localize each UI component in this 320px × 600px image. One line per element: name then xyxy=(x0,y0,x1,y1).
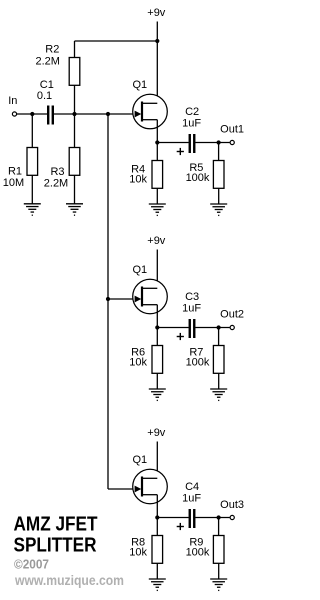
svg-text:+9v: +9v xyxy=(147,7,166,19)
svg-text:Q1: Q1 xyxy=(132,264,147,276)
wire source node to capacitor C4 xyxy=(157,517,188,519)
wire +9v to drain Q1 (stage 1) xyxy=(156,22,158,104)
svg-text:Out2: Out2 xyxy=(220,309,244,321)
resistor R6 xyxy=(156,328,158,346)
svg-text:2.2M: 2.2M xyxy=(44,178,68,190)
svg-text:In: In xyxy=(8,95,17,107)
ground under R1 xyxy=(24,203,41,205)
ground under R8 xyxy=(149,578,166,580)
svg-text:C4: C4 xyxy=(185,481,199,493)
svg-text:Out3: Out3 xyxy=(220,499,244,511)
svg-text:C3: C3 xyxy=(185,291,199,303)
wire source lead Out2 xyxy=(156,305,158,328)
junction drain rail / R2 xyxy=(155,39,159,43)
terminal Out3 xyxy=(230,515,234,519)
junction node B (C1/R2/R3) xyxy=(72,112,76,116)
svg-text:©2007: ©2007 xyxy=(14,557,49,572)
svg-text:100k: 100k xyxy=(186,172,210,184)
resistor R2 xyxy=(74,41,76,58)
capacitor C2 xyxy=(189,134,191,153)
svg-text:R3: R3 xyxy=(50,166,64,178)
wire capacitor to Out3 xyxy=(195,517,229,519)
svg-text:SPLITTER: SPLITTER xyxy=(14,535,97,557)
junction Out3 node xyxy=(217,515,221,519)
terminal Out2 xyxy=(230,325,234,329)
svg-text:10k: 10k xyxy=(129,547,147,559)
transistor Q1 (stage 2) xyxy=(133,279,168,314)
junction source node Out2 xyxy=(155,325,159,329)
svg-text:10k: 10k xyxy=(129,173,147,185)
wire gate bus stage1 to stage2 xyxy=(107,114,109,299)
terminal In xyxy=(12,112,16,116)
wire capacitor to Out2 xyxy=(195,327,229,329)
wire source node to capacitor C3 xyxy=(157,327,188,329)
capacitor C1 xyxy=(47,106,49,125)
svg-text:+9v: +9v xyxy=(147,427,166,439)
ground under R3 xyxy=(66,203,83,205)
ground under R9 xyxy=(210,578,227,580)
svg-text:10M: 10M xyxy=(3,177,24,189)
svg-text:1uF: 1uF xyxy=(182,303,201,315)
resistor R8 xyxy=(156,518,158,536)
svg-text:1uF: 1uF xyxy=(182,118,201,130)
junction node A (In/R1) xyxy=(30,112,34,116)
svg-text:1uF: 1uF xyxy=(182,493,201,505)
capacitor C4 xyxy=(189,509,191,528)
ground under R6 xyxy=(149,388,166,390)
junction gate bus tap (stage 2) xyxy=(106,297,110,301)
resistor R4 xyxy=(156,143,158,161)
wire drain rail to R2 xyxy=(75,40,158,42)
svg-text:10k: 10k xyxy=(129,357,147,369)
svg-text:Out1: Out1 xyxy=(220,124,244,136)
transistor Q1 (stage 3) xyxy=(133,469,168,504)
capacitor C3 xyxy=(189,319,191,338)
svg-text:Q1: Q1 xyxy=(132,454,147,466)
wire +9v to drain Q1 (stage 2) xyxy=(156,250,158,289)
wire source lead Out1 xyxy=(156,120,158,143)
wire In to C1 xyxy=(17,113,48,115)
svg-text:AMZ JFET: AMZ JFET xyxy=(14,514,98,536)
svg-text:100k: 100k xyxy=(186,357,210,369)
wire source lead Out3 xyxy=(156,495,158,518)
junction Out2 node xyxy=(217,325,221,329)
resistor R9 xyxy=(218,518,220,536)
svg-text:0.1: 0.1 xyxy=(37,90,52,102)
svg-text:C1: C1 xyxy=(40,79,54,91)
svg-text:2.2M: 2.2M xyxy=(35,56,59,68)
transistor Q1 (stage 1) xyxy=(133,94,168,129)
resistor R7 xyxy=(218,328,220,346)
svg-text:C2: C2 xyxy=(185,106,199,118)
wire C1 to gate Q1 (stage 1) xyxy=(54,113,142,115)
wire gate bus to gate Q1 (stage 2) xyxy=(108,298,141,300)
junction node C (gate bus tap, stage 1) xyxy=(106,112,110,116)
wire capacitor to Out1 xyxy=(195,142,229,144)
ground under R4 xyxy=(149,203,166,205)
junction source node Out3 xyxy=(155,515,159,519)
svg-text:R2: R2 xyxy=(45,44,59,56)
terminal Out1 xyxy=(230,140,234,144)
wire +9v to drain Q1 (stage 3) xyxy=(156,442,158,479)
ground under R5 xyxy=(210,203,227,205)
svg-text:Q1: Q1 xyxy=(132,79,147,91)
svg-text:www.muzique.com: www.muzique.com xyxy=(14,572,124,588)
ground under R7 xyxy=(210,388,227,390)
svg-text:R1: R1 xyxy=(8,166,22,178)
junction source node Out1 xyxy=(155,140,159,144)
svg-text:100k: 100k xyxy=(186,547,210,559)
resistor R1 xyxy=(31,114,33,148)
junction Out1 node xyxy=(217,140,221,144)
resistor R3 xyxy=(74,114,76,148)
wire gate bus stage2 to stage3 xyxy=(107,299,109,489)
wire gate bus to gate Q1 (stage 3) xyxy=(108,488,141,490)
resistor R5 xyxy=(218,143,220,161)
wire source node to capacitor C2 xyxy=(157,142,188,144)
svg-text:+9v: +9v xyxy=(147,235,166,247)
